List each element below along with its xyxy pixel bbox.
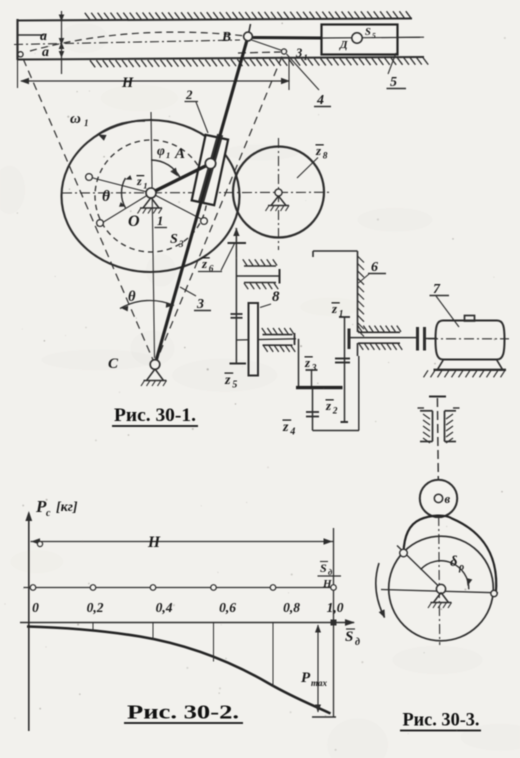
svg-text:θ: θ xyxy=(102,188,110,205)
svg-text:в: в xyxy=(445,492,451,506)
svg-text:a: a xyxy=(40,29,47,44)
svg-text:1: 1 xyxy=(143,181,147,191)
svg-text:1: 1 xyxy=(157,214,163,228)
svg-text:A: A xyxy=(174,146,185,162)
svg-text:O: O xyxy=(128,213,140,230)
svg-text:Д: Д xyxy=(339,39,348,51)
svg-text:c: c xyxy=(46,508,51,519)
svg-text:H: H xyxy=(147,534,161,551)
svg-text:4: 4 xyxy=(289,427,295,438)
svg-text:В: В xyxy=(221,29,231,44)
svg-text:1: 1 xyxy=(84,118,89,128)
svg-text:z: z xyxy=(282,420,289,435)
svg-text:7: 7 xyxy=(433,282,441,297)
svg-text:S: S xyxy=(365,27,371,38)
svg-text:8: 8 xyxy=(323,152,328,162)
svg-text:Рис. 30-1.: Рис. 30-1. xyxy=(114,405,196,426)
svg-text:3: 3 xyxy=(196,297,204,312)
svg-text:5: 5 xyxy=(372,31,376,40)
svg-text:P: P xyxy=(301,670,311,686)
svg-text:0,2: 0,2 xyxy=(87,600,104,615)
svg-text:ω: ω xyxy=(70,111,81,127)
svg-text:φ: φ xyxy=(157,143,165,158)
svg-text:max: max xyxy=(311,678,328,688)
svg-text:0,6: 0,6 xyxy=(219,600,236,615)
svg-text:a: a xyxy=(42,45,49,60)
svg-text:0: 0 xyxy=(32,600,39,615)
svg-text:S: S xyxy=(170,232,178,247)
svg-text:0,8: 0,8 xyxy=(283,600,300,615)
svg-text:6: 6 xyxy=(209,265,214,275)
svg-text:S: S xyxy=(345,629,353,645)
svg-text:Рис. 30-2.: Рис. 30-2. xyxy=(127,703,239,724)
svg-text:1: 1 xyxy=(166,150,170,160)
svg-text:[кг]: [кг] xyxy=(56,500,78,515)
svg-text:5: 5 xyxy=(390,75,397,90)
svg-text:3: 3 xyxy=(295,46,302,60)
svg-text:0,4: 0,4 xyxy=(156,600,173,615)
svg-text:4: 4 xyxy=(316,93,324,108)
svg-text:1,0: 1,0 xyxy=(327,600,344,615)
svg-text:2: 2 xyxy=(185,87,193,102)
svg-text:Рис. 30-3.: Рис. 30-3. xyxy=(403,711,480,731)
svg-text:1: 1 xyxy=(304,52,308,62)
svg-text:2: 2 xyxy=(332,407,338,417)
svg-text:3: 3 xyxy=(178,239,184,249)
svg-text:6: 6 xyxy=(371,260,378,275)
svg-text:д: д xyxy=(355,637,360,648)
svg-text:8: 8 xyxy=(272,289,280,305)
svg-text:S: S xyxy=(320,561,327,575)
